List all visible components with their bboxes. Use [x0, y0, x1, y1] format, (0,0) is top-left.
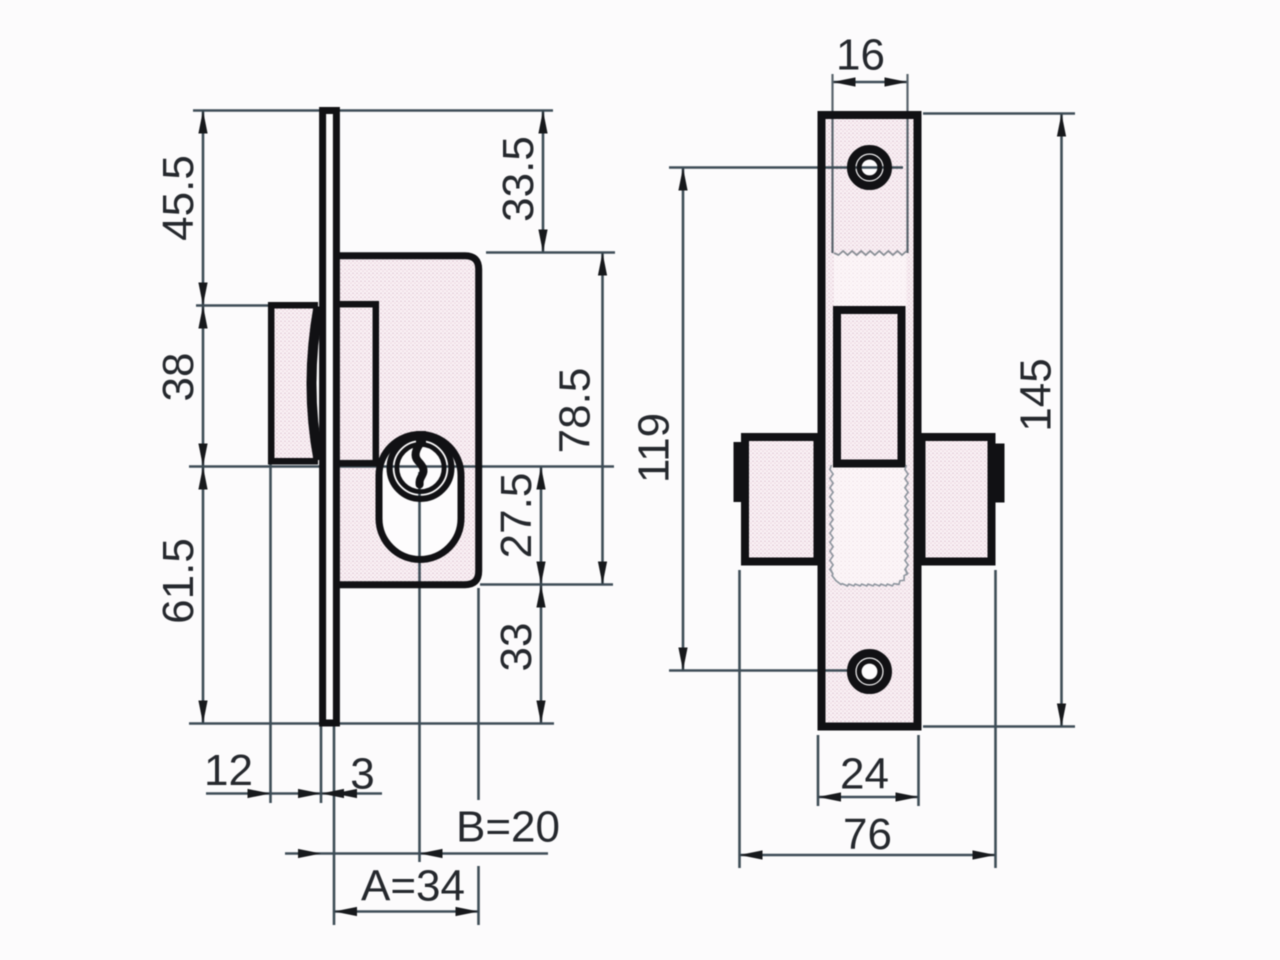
faceplate outline (front view) — [822, 115, 918, 727]
dimension line 33.5 — [542, 111, 545, 253]
dimension line B=20 — [285, 852, 548, 855]
faceplate fill (front view) — [822, 115, 918, 727]
dimension line 145 — [1060, 114, 1063, 727]
extension line body bottom right — [480, 583, 613, 586]
dimension line 12 / 3 — [206, 792, 382, 795]
extension line faceplate front vertical — [320, 723, 323, 803]
svg-text:27.5: 27.5 — [492, 473, 541, 559]
svg-text:61.5: 61.5 — [154, 538, 203, 624]
extension line latch top — [196, 304, 268, 307]
recess channel lower fill — [832, 465, 907, 585]
extension line cylinder axis vertical — [418, 472, 421, 862]
hidden recess outline sawtooth (U channel) — [830, 465, 833, 574]
dimension line 119 — [682, 168, 685, 671]
svg-text:76: 76 — [843, 810, 892, 859]
extension line 119 top (through top screw) — [669, 166, 903, 169]
svg-text:45.5: 45.5 — [154, 155, 203, 241]
left case block outline — [745, 437, 818, 562]
bottom screw outer ring — [851, 653, 888, 690]
svg-text:33: 33 — [492, 623, 541, 672]
svg-text:38: 38 — [154, 353, 203, 402]
extension line 145 bottom — [923, 725, 1075, 728]
svg-text:A=34: A=34 — [361, 861, 465, 910]
latch bolt face curve — [312, 307, 319, 461]
extension line latch left vertical — [269, 464, 272, 803]
svg-text:3: 3 — [350, 749, 374, 798]
hidden edge sawtooth across plate — [834, 251, 907, 255]
bottom screw inner ring — [859, 661, 880, 682]
svg-text:B=20: B=20 — [456, 802, 560, 851]
svg-text:119: 119 — [629, 413, 678, 483]
svg-text:145: 145 — [1011, 358, 1060, 431]
dimension line 24 — [818, 796, 919, 799]
lock body outline (side view) — [337, 256, 479, 585]
dimension line 78.5 — [601, 253, 604, 585]
cylinder outer circle — [390, 437, 452, 499]
case front plate outline (side view) — [336, 304, 376, 463]
right case block outline — [922, 437, 992, 562]
extension/recess edge left vertical — [831, 74, 833, 253]
cylinder oval outline — [379, 435, 461, 560]
faceplate strip (side view) — [323, 111, 337, 724]
top screw inner ring — [859, 157, 880, 178]
deadbolt outline (front view) — [837, 310, 902, 464]
extension line cylinder axis horizontal — [189, 465, 614, 468]
extension line top (45.5 / 33.5) — [193, 109, 553, 112]
left case block fill (front view) — [745, 437, 818, 562]
extension lines 76 — [738, 570, 741, 868]
extension line 145 top — [923, 112, 1075, 115]
dimension line 76 — [740, 854, 996, 857]
latch bolt block fill (side view) — [271, 305, 318, 461]
cylinder inner circle — [397, 444, 444, 491]
extension line faceplate back vertical — [333, 726, 336, 925]
latch tip nub left — [734, 442, 743, 502]
latch bolt block outline — [271, 305, 318, 461]
dimension line 45.5 / 38 / 61.5 — [202, 111, 205, 724]
top screw outer ring — [851, 149, 888, 186]
extension line body top right (78.5 / 33.5) — [486, 251, 615, 254]
dimension line 16 — [833, 81, 908, 84]
deadbolt fill (front view) — [837, 310, 902, 464]
svg-text:16: 16 — [836, 30, 885, 79]
extension line 119 bottom (to bottom screw) — [669, 669, 848, 672]
case front plate fill (side view) — [336, 304, 376, 463]
lock body fill (side view) — [337, 256, 479, 585]
deadbolt tip nub right — [996, 444, 1005, 503]
bottom screw interior — [847, 649, 892, 694]
top screw interior — [847, 145, 892, 190]
svg-text:12: 12 — [204, 746, 253, 795]
dimension line A=34 — [334, 910, 479, 913]
recess channel upper fill — [834, 253, 907, 309]
svg-text:33.5: 33.5 — [494, 136, 543, 222]
svg-text:24: 24 — [840, 749, 889, 798]
extension/recess edge right vertical — [906, 74, 908, 253]
extension line body rear vertical — [477, 588, 480, 800]
right case block fill (front view) — [922, 437, 992, 562]
dimension line 27.5 / 33 — [540, 467, 543, 724]
keyhole — [416, 431, 426, 446]
svg-text:78.5: 78.5 — [550, 368, 599, 454]
cylinder circle interior — [387, 434, 455, 502]
extension line bottom (61.5 / 33) — [189, 722, 554, 725]
extension lines 24 — [817, 735, 820, 806]
cylinder oval fill — [379, 435, 461, 560]
